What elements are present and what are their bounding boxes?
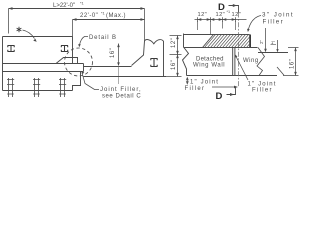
svg-text:Filler: Filler	[185, 86, 206, 92]
ground line to middle section	[84, 66, 132, 68]
wing right lower top line	[258, 52, 288, 54]
extension line left end	[8, 9, 10, 34]
walls bottom line	[187, 75, 278, 77]
svg-text:*1: *1	[101, 11, 106, 16]
footing top	[3, 71, 84, 73]
pile 3	[59, 78, 66, 97]
footing right end step	[73, 64, 84, 91]
wing seat inside circle	[56, 58, 78, 64]
svg-text:Detached: Detached	[196, 56, 224, 62]
extension line right shared with section profile	[144, 9, 146, 42]
svg-text:12": 12"	[232, 12, 242, 18]
svg-text:22'-0": 22'-0"	[80, 13, 98, 19]
svg-text:*1: *1	[227, 10, 231, 14]
extension lines for 12" dims	[198, 22, 236, 35]
svg-text:Wing: Wing	[243, 58, 259, 64]
svg-text:Filler: Filler	[263, 18, 285, 25]
svg-text:L>22'-0": L>22'-0"	[53, 3, 75, 9]
left 1" Joint Filler label	[186, 78, 188, 85]
berm slope	[203, 35, 214, 48]
joint filler leader	[82, 73, 99, 90]
wall elevation outline (left drawing)	[3, 37, 84, 91]
svg-text:see Detail C: see Detail C	[102, 94, 141, 100]
svg-text:16": 16"	[110, 48, 116, 58]
pile 2	[33, 78, 40, 97]
dimension line 22'-0" (Max.)	[73, 19, 145, 21]
wing bottom break diagonal	[277, 67, 284, 75]
svg-text:12": 12"	[198, 12, 208, 18]
Detail B leader	[80, 37, 88, 45]
wing break zigzag	[257, 48, 265, 76]
detail B circle (dashed)	[65, 48, 93, 76]
3" joint filler leader	[248, 16, 261, 30]
section line D-D (dashed)	[238, 13, 240, 88]
svg-text:Detail B: Detail B	[89, 35, 117, 41]
svg-text:12": 12"	[171, 38, 177, 48]
12" x3 chain dimension	[195, 19, 247, 21]
12" / 16" vertical dims right of middle section	[177, 36, 179, 77]
16" vertical dim left of middle section	[118, 44, 120, 66]
svg-text:16": 16"	[171, 60, 177, 70]
right drawing: left break edge	[183, 34, 189, 76]
svg-text:*1: *1	[80, 1, 85, 6]
H-pile symbol in wall (left)	[8, 46, 15, 52]
hatch right edge / 3in joint filler	[249, 35, 251, 48]
wall top line	[184, 47, 258, 49]
H-pile symbol in wall (right)	[61, 46, 68, 52]
small vertical dim at 277	[277, 40, 279, 52]
small vertical dim at 265	[265, 28, 267, 51]
far right 16" dim	[283, 48, 299, 76]
svg-text:D: D	[216, 91, 223, 102]
asterisk leader	[23, 30, 35, 39]
svg-text:Joint Filler,: Joint Filler,	[100, 87, 142, 93]
middle section profile	[84, 40, 167, 77]
asterisk note	[17, 27, 22, 33]
footing bottom	[3, 90, 73, 92]
svg-text:Filler: Filler	[252, 88, 273, 94]
pile 1	[7, 78, 14, 97]
dimension line L>22'-0"	[9, 8, 145, 10]
H-pile symbol in middle section	[151, 59, 158, 67]
extension line at wall right edge up to dim	[72, 20, 74, 37]
svg-text:1": 1"	[271, 40, 275, 45]
svg-text:2": 2"	[259, 40, 264, 44]
svg-text:Wing Wall: Wing Wall	[193, 63, 225, 69]
svg-text:12": 12"	[216, 12, 226, 18]
top line	[184, 34, 250, 36]
svg-text:1" Joint: 1" Joint	[190, 80, 219, 86]
svg-text:16": 16"	[290, 59, 296, 69]
svg-text:(Max.): (Max.)	[106, 13, 126, 19]
1" joint between walls	[233, 48, 235, 76]
hatch lines	[205, 35, 250, 48]
